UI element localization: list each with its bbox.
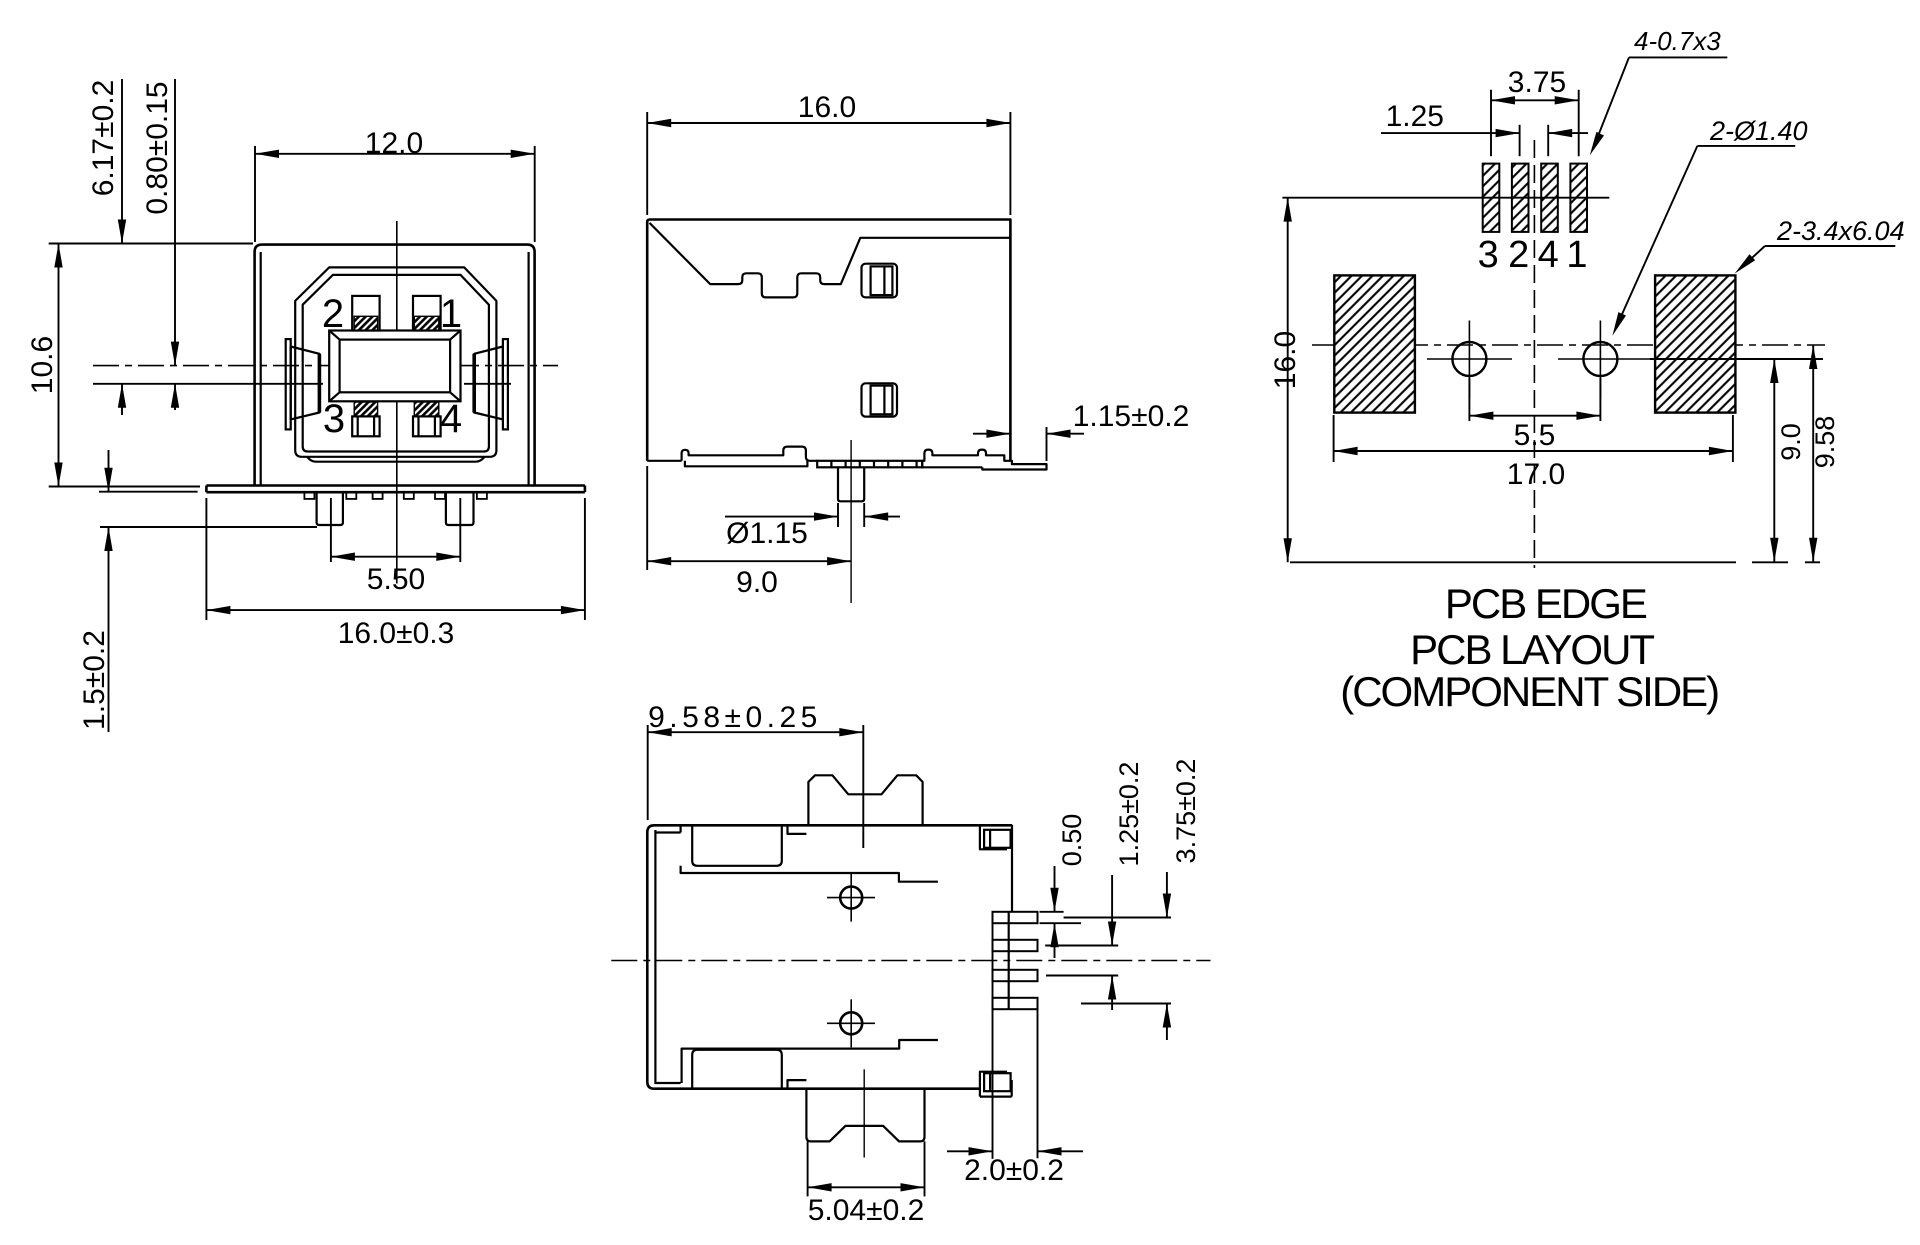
svg-text:1.25±0.2: 1.25±0.2: [1114, 762, 1144, 867]
svg-text:3: 3: [323, 397, 345, 441]
svg-text:0.80±0.15: 0.80±0.15: [141, 81, 174, 214]
svg-text:3: 3: [1478, 234, 1499, 276]
svg-text:4: 4: [440, 397, 462, 441]
svg-text:16.0±0.3: 16.0±0.3: [338, 617, 455, 650]
svg-text:5.04±0.2: 5.04±0.2: [808, 1194, 925, 1227]
svg-text:(COMPONENT SIDE): (COMPONENT SIDE): [1340, 668, 1718, 715]
svg-text:6.17±0.2: 6.17±0.2: [87, 80, 120, 197]
svg-text:12.0: 12.0: [365, 127, 423, 160]
svg-text:16.0: 16.0: [798, 91, 856, 124]
svg-text:2.0±0.2: 2.0±0.2: [964, 1154, 1064, 1187]
svg-text:9.0: 9.0: [1776, 423, 1806, 461]
svg-text:2-Ø1.40: 2-Ø1.40: [1709, 116, 1808, 146]
svg-text:5.50: 5.50: [367, 563, 425, 596]
svg-text:2: 2: [322, 292, 344, 336]
svg-text:9.58: 9.58: [1810, 416, 1840, 469]
svg-text:1.25: 1.25: [1386, 100, 1444, 133]
svg-text:1: 1: [440, 292, 462, 336]
svg-text:9.58±0.25: 9.58±0.25: [648, 701, 822, 734]
svg-text:5.5: 5.5: [1514, 419, 1556, 452]
svg-text:4: 4: [1538, 234, 1559, 276]
svg-text:16.0: 16.0: [1269, 331, 1302, 389]
svg-text:1.15±0.2: 1.15±0.2: [1073, 400, 1190, 433]
svg-text:PCB EDGE: PCB EDGE: [1445, 580, 1647, 627]
svg-text:3.75±0.2: 3.75±0.2: [1171, 759, 1201, 864]
svg-text:PCB LAYOUT: PCB LAYOUT: [1410, 626, 1654, 673]
svg-text:0.50: 0.50: [1057, 814, 1087, 867]
svg-text:3.75: 3.75: [1508, 66, 1566, 99]
svg-text:17.0: 17.0: [1507, 458, 1565, 491]
svg-text:1.5±0.2: 1.5±0.2: [78, 630, 111, 730]
svg-text:Ø1.15: Ø1.15: [726, 517, 808, 550]
svg-text:10.6: 10.6: [26, 336, 59, 394]
svg-text:2-3.4x6.04: 2-3.4x6.04: [1776, 216, 1905, 246]
svg-text:9.0: 9.0: [736, 566, 778, 599]
svg-text:1: 1: [1566, 234, 1587, 276]
svg-text:4-0.7x3: 4-0.7x3: [1634, 26, 1721, 56]
svg-text:2: 2: [1508, 234, 1529, 276]
